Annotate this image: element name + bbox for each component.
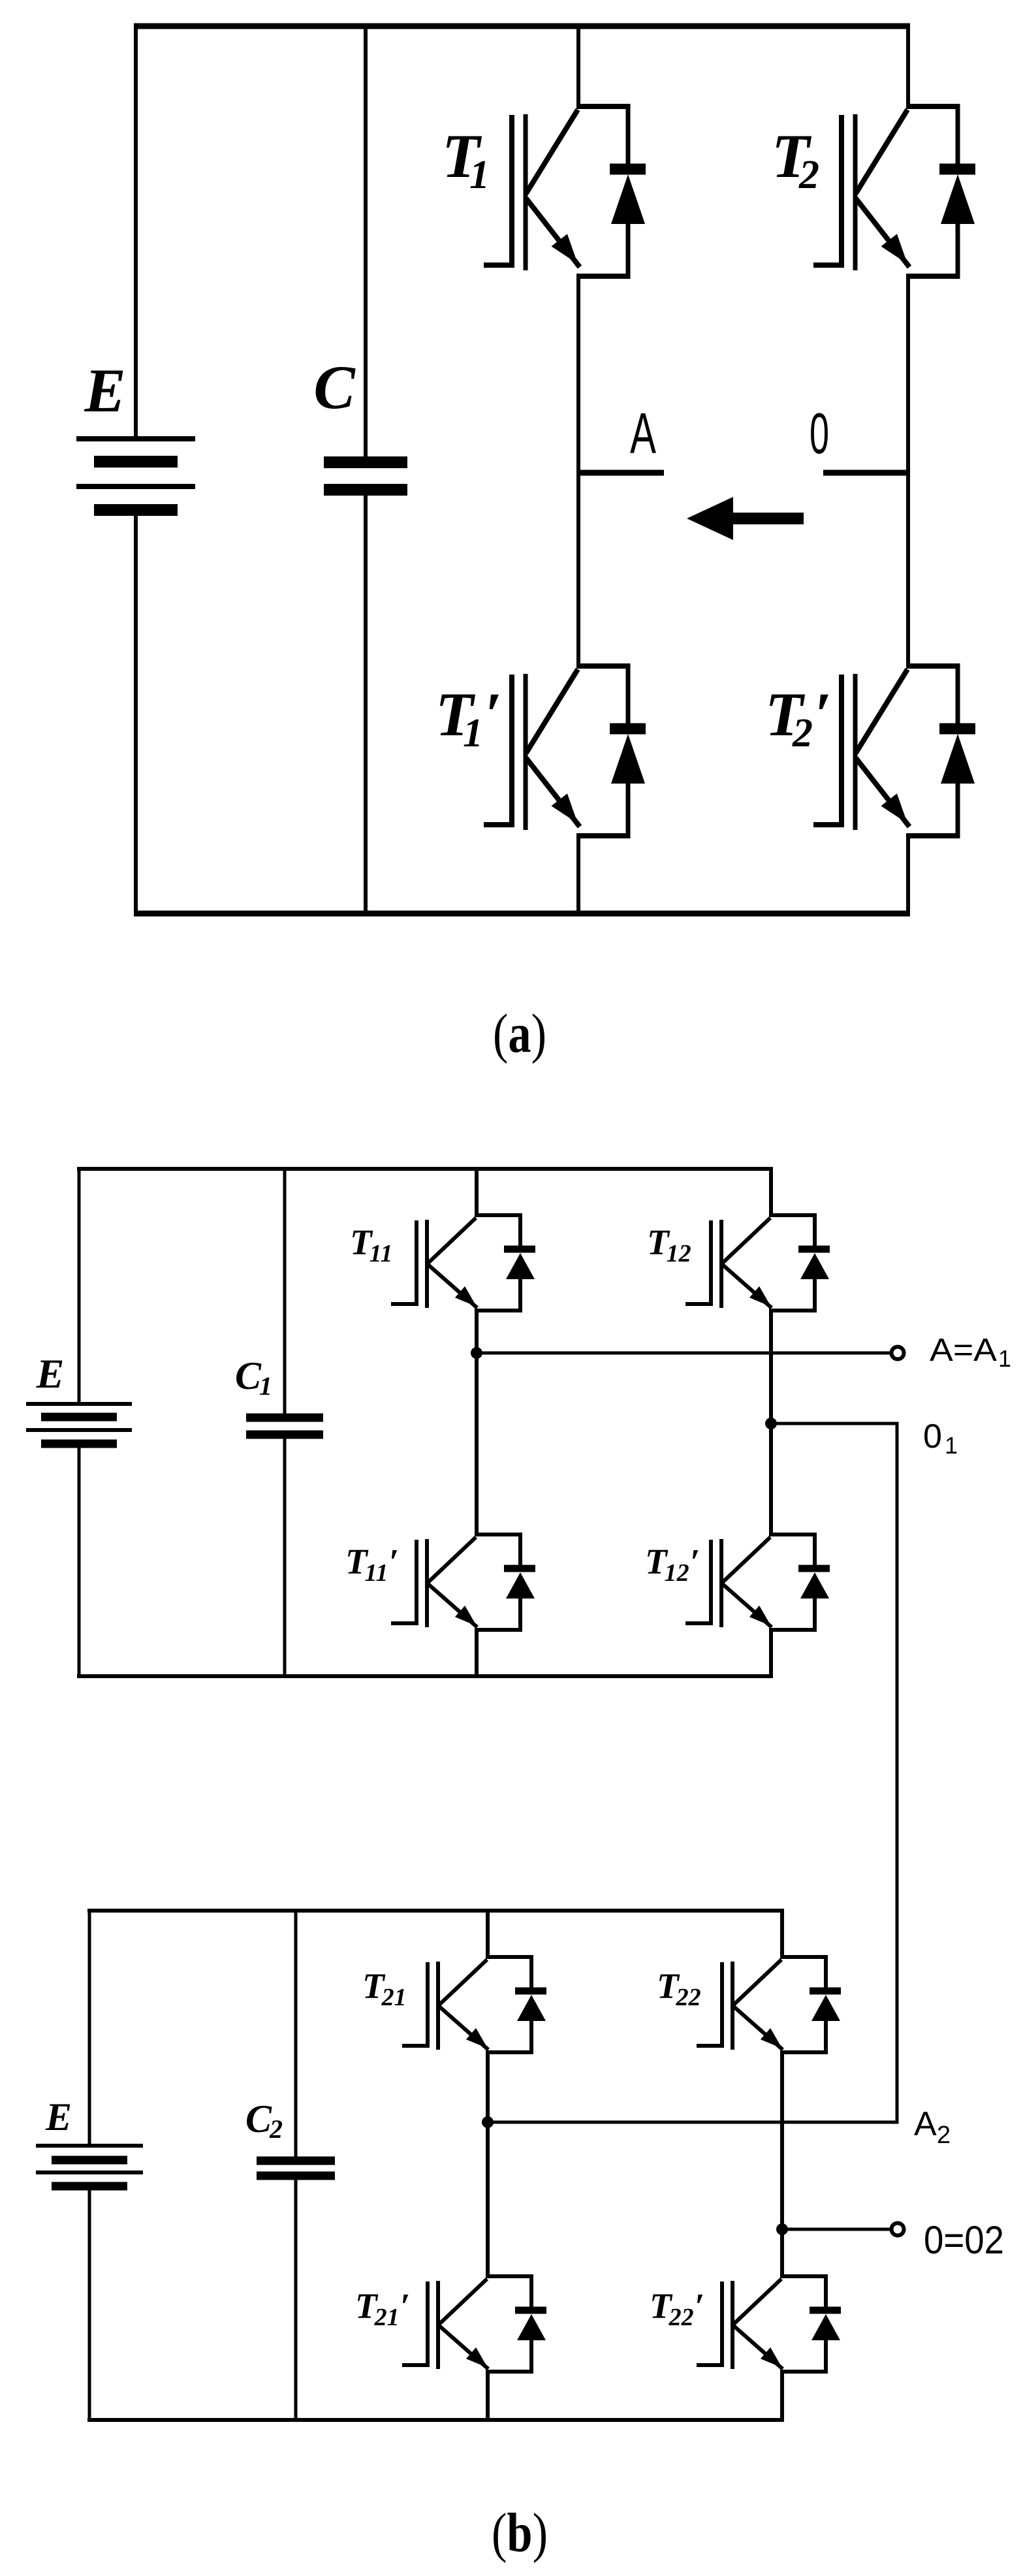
T21 gate bar and gate lead (402, 1962, 428, 2046)
svg-text:C: C (313, 353, 356, 422)
battery E (upper) plates (26, 1404, 132, 1444)
D2 anode triangle (941, 174, 975, 224)
D2 cathode bar (939, 164, 975, 175)
wire: node 01 horizontal run to the right (771, 1422, 899, 1425)
T12 emitter diagonal (723, 1265, 772, 1308)
T12p emitter arrowhead (749, 1606, 771, 1626)
svg-text:T1′: T1′ (435, 680, 502, 755)
svg-text:T22: T22 (657, 1966, 701, 2011)
svg-text:(a): (a) (493, 1003, 546, 1064)
wire: capacitor C2 rail lower segment (294, 2176, 298, 2422)
T1 emitter arrowhead (552, 234, 578, 264)
T12p emitter diagonal (723, 1584, 772, 1627)
D11 anode triangle (506, 1253, 535, 1279)
svg-text:T1: T1 (442, 121, 490, 197)
E (upper) plate 4 (short thick) (41, 1440, 117, 1448)
T1p collector top jog wire (576, 663, 628, 669)
transistor T22p (IGBT) (697, 2274, 841, 2374)
D21p anode lead (529, 2339, 533, 2374)
T12 emitter arrowhead (749, 1286, 771, 1307)
freewheeling diode D12p of T12p (798, 1533, 830, 1632)
D12 cathode bar (798, 1246, 830, 1253)
node A2 junction dot (lower bridge leg 1) (482, 2116, 494, 2128)
T2 emitter arrowhead (881, 234, 908, 264)
svg-text:E: E (36, 1350, 65, 1397)
terminal A=A1 open circle (892, 1347, 904, 1360)
svg-text:1: 1 (998, 1345, 1011, 1372)
transistor T22 (IGBT) (697, 1955, 841, 2054)
D12 cathode lead (813, 1213, 817, 1247)
svg-text:T2′: T2′ (765, 680, 832, 755)
T11 emitter arrowhead (455, 1286, 477, 1307)
D1p anode lead (626, 782, 631, 838)
D11 cathode lead (518, 1213, 522, 1247)
D11 cathode bar (504, 1246, 535, 1253)
wire: capacitor C rail lower segment (364, 495, 368, 916)
svg-text:A: A (630, 401, 656, 466)
wire: left rail lower segment (battery E branch, lower bridge) (88, 2186, 91, 2422)
D21p cathode bar (515, 2307, 546, 2314)
D22p anode triangle (811, 2314, 840, 2340)
T22 collector top jog wire (780, 1955, 826, 1959)
node 01 junction dot (upper bridge leg 2) (765, 1418, 777, 1429)
wire: leg 2 rail from top bus to T22 (780, 1909, 784, 1958)
T12p emitter bottom jog wire (769, 1628, 815, 1632)
freewheeling diode D21 of T21 (515, 1955, 546, 2054)
D2p anode lead (956, 782, 960, 838)
T22p collector top jog wire (780, 2274, 826, 2278)
D11p cathode lead (518, 1533, 522, 1566)
wire: capacitor C rail upper segment (364, 24, 368, 457)
wire: leg 0 rail from top bus to T2 (906, 24, 910, 108)
T21p gate bar and gate lead (402, 2282, 428, 2365)
T22p collector diagonal (734, 2279, 781, 2324)
T21 emitter arrowhead (466, 2028, 488, 2048)
D12p cathode bar (798, 1565, 830, 1572)
T21p collector top jog wire (486, 2274, 531, 2278)
T1 emitter diagonal (526, 199, 580, 267)
node 0=02 junction dot (lower bridge leg 2) (776, 2223, 788, 2235)
T21p emitter bottom jog wire (486, 2370, 531, 2374)
svg-text:C2: C2 (245, 2097, 283, 2144)
T2 emitter bottom jog wire (906, 274, 958, 279)
T12p collector top jog wire (769, 1533, 815, 1536)
T11 gate bar and gate lead (391, 1220, 417, 1304)
capacitor C plates (324, 462, 407, 490)
transistor T11 (IGBT) (391, 1213, 535, 1312)
D21p cathode lead (529, 2274, 533, 2308)
svg-text:T22′: T22′ (650, 2286, 704, 2331)
D12p cathode lead (813, 1533, 817, 1566)
D12 anode lead (813, 1278, 817, 1312)
E (upper) plate 2 (short thick) (41, 1413, 117, 1422)
wire: leg A rail between T1 and T1' (phase node A) (576, 275, 580, 668)
T22 collector diagonal (734, 1960, 781, 2005)
T11 emitter bottom jog wire (475, 1309, 520, 1312)
T2p emitter bottom jog wire (906, 833, 958, 838)
T11p collector diagonal (428, 1537, 476, 1582)
T1 collector top jog wire (576, 104, 628, 109)
D11p cathode bar (504, 1565, 535, 1572)
T12p body bar (719, 1539, 723, 1627)
wire: leg 2 rail from T12' to bottom bus (769, 1628, 773, 1678)
E (lower) plate 4 (short thick) (52, 2182, 127, 2191)
D22 cathode bar (810, 1988, 841, 1995)
T21 emitter bottom jog wire (486, 2050, 531, 2054)
svg-text:T12: T12 (647, 1222, 691, 1267)
T21 collector diagonal (439, 1960, 487, 2005)
T2p emitter arrowhead (881, 793, 908, 823)
D1 cathode lead (626, 104, 631, 166)
D1p cathode lead (626, 663, 631, 725)
T2p collector diagonal (856, 669, 907, 753)
D21 cathode bar (515, 1988, 546, 1995)
svg-text:C1: C1 (235, 1354, 272, 1401)
C1 bottom plate (246, 1431, 323, 1439)
T2 emitter diagonal (856, 199, 909, 267)
T1 body bar (524, 114, 528, 270)
wire: output stub of node A (578, 470, 664, 476)
wire: capacitor C2 rail upper segment (294, 1909, 298, 2161)
svg-text:T21′: T21′ (355, 2286, 410, 2331)
transistor T12 (IGBT) (685, 1213, 830, 1312)
D11p anode triangle (506, 1572, 535, 1598)
C bottom plate (324, 484, 407, 496)
T11p gate bar and gate lead (391, 1540, 417, 1623)
D21 cathode lead (529, 1955, 533, 1989)
transistor T21 (IGBT) (402, 1955, 546, 2054)
T22 emitter bottom jog wire (780, 2050, 826, 2054)
wire: node 0=02 to output terminal (782, 2228, 890, 2231)
T1 collector diagonal (526, 110, 578, 193)
wire: leg A rail from top bus to T1 (576, 24, 580, 108)
wire: leg 2 rail from T22' to bottom bus (780, 2370, 784, 2422)
wire: output stub of node 0 (823, 470, 910, 476)
transistor T12p (IGBT) (685, 1533, 830, 1632)
wire: long vertical from node 01 down to node A2 of lower bridge (896, 1423, 899, 2124)
transistor T21p (IGBT) (402, 2274, 546, 2374)
battery E plates (76, 439, 195, 510)
svg-text:0: 0 (923, 1418, 942, 1455)
T22 emitter arrowhead (761, 2028, 782, 2048)
T1 emitter bottom jog wire (576, 274, 628, 279)
wire: leg 0 rail between T2 and T2' (node 0) (906, 275, 910, 668)
wire: leg 1 rail from T11' to bottom bus (475, 1628, 479, 1678)
T22 gate bar and gate lead (697, 1962, 722, 2046)
freewheeling diode D2 of T2 (939, 104, 975, 279)
D12p anode triangle (800, 1572, 829, 1598)
T11 collector diagonal (428, 1218, 476, 1263)
T11p emitter diagonal (428, 1584, 477, 1627)
T1p emitter diagonal (526, 758, 580, 827)
svg-text:E: E (84, 356, 125, 425)
E (upper) plate 1 (long) (26, 1402, 132, 1406)
T22p emitter arrowhead (761, 2347, 782, 2368)
D11p anode lead (518, 1597, 522, 1632)
wire: top DC bus of circuit (a) (134, 24, 910, 29)
D21p anode triangle (517, 2314, 546, 2340)
D2 anode lead (956, 223, 960, 279)
T2 collector top jog wire (906, 104, 958, 109)
wire: leg 0 rail from T2' to bottom bus (906, 834, 910, 916)
freewheeling diode D1 of T1 (610, 104, 646, 279)
freewheeling diode D11 of T11 (504, 1213, 535, 1312)
T1p body bar (524, 674, 528, 830)
T12 gate bar and gate lead (685, 1220, 711, 1304)
D22p cathode bar (810, 2307, 841, 2314)
T11p emitter bottom jog wire (475, 1628, 520, 1632)
wire: leg 1 rail between T11 and T11' (node A) (475, 1309, 479, 1536)
T2p body bar (853, 674, 858, 830)
wire: node A2 horizontal run to the right (joins vertical from 01) (488, 2121, 899, 2124)
battery E (lower) plates (36, 2146, 143, 2186)
wire: leg A rail from T1' to bottom bus (576, 834, 580, 916)
T2 collector diagonal (856, 110, 907, 193)
E plate 1 (long) (76, 436, 195, 441)
D21 anode triangle (517, 1995, 546, 2021)
svg-text:T2: T2 (772, 121, 819, 197)
terminal 0=02 open circle (892, 2223, 904, 2236)
freewheeling diode D2p of T2p (939, 663, 975, 838)
svg-text:T21: T21 (362, 1966, 407, 2011)
D22p cathode lead (824, 2274, 828, 2308)
D1p cathode bar (610, 724, 646, 735)
T2p collector top jog wire (906, 663, 958, 669)
D2p cathode bar (939, 724, 975, 735)
T22p emitter diagonal (734, 2326, 783, 2369)
T2 gate bar and gate lead (813, 115, 842, 265)
E (lower) plate 2 (short thick) (52, 2156, 127, 2165)
capacitor C1 plates (246, 1418, 323, 1435)
T22p body bar (731, 2281, 734, 2369)
svg-text:A: A (914, 2105, 937, 2143)
D1 anode triangle (611, 174, 645, 224)
D11 anode lead (518, 1278, 522, 1312)
T1p emitter arrowhead (552, 793, 578, 823)
wire: capacitor C1 rail upper segment (283, 1167, 287, 1418)
T21 collector top jog wire (486, 1955, 531, 1959)
wire: leg 2 rail between T22 and T22' (node 0=02) (780, 2051, 784, 2278)
T11p collector top jog wire (475, 1533, 520, 1536)
freewheeling diode D11p of T11p (504, 1533, 535, 1632)
transistor T11p (IGBT) (391, 1533, 535, 1632)
D22 anode lead (824, 2020, 828, 2054)
freewheeling diode D12 of T12 (798, 1213, 830, 1312)
freewheeling diode D22p of T22p (810, 2274, 841, 2374)
current direction arrow (pointing left) (687, 497, 804, 540)
D1 cathode bar (610, 164, 646, 175)
T21p collector diagonal (439, 2279, 487, 2324)
D22 cathode lead (824, 1955, 828, 1989)
T21 emitter diagonal (439, 2007, 488, 2050)
wire: left rail upper segment (battery E branch, lower bridge) (88, 1909, 91, 2146)
C2 top plate (257, 2157, 335, 2165)
T12 body bar (719, 1220, 723, 1308)
T12p gate bar and gate lead (685, 1540, 711, 1623)
wire: left rail lower segment (battery E branch) (134, 512, 138, 916)
T12 collector top jog wire (769, 1213, 815, 1217)
wire: leg 1 rail from top bus to T21 (486, 1909, 490, 1958)
svg-text:2: 2 (937, 2122, 951, 2149)
E plate 4 (short thick) (94, 504, 178, 516)
T1 gate bar and gate lead (484, 115, 512, 265)
T11 emitter diagonal (428, 1265, 477, 1308)
arrow head (687, 497, 733, 540)
T21 body bar (436, 1962, 440, 2050)
D1 anode lead (626, 223, 631, 279)
svg-text:(b): (b) (492, 2502, 548, 2564)
T21p emitter diagonal (439, 2326, 488, 2369)
T1p collector diagonal (526, 669, 578, 753)
T22 emitter diagonal (734, 2007, 783, 2050)
D22 anode triangle (811, 1995, 840, 2021)
wire: leg 2 rail from top bus to T12 (769, 1167, 773, 1216)
wire: left rail lower segment (battery E branch, upper bridge) (78, 1444, 81, 1678)
freewheeling diode D1p of T1p (610, 663, 646, 838)
node A junction dot (upper bridge leg 1) (471, 1347, 482, 1359)
T1p gate bar and gate lead (484, 675, 512, 825)
svg-text:E: E (45, 2095, 72, 2139)
T11 collector top jog wire (475, 1213, 520, 1217)
T22p gate bar and gate lead (697, 2282, 722, 2365)
C top plate (324, 456, 407, 468)
svg-text:T11: T11 (350, 1222, 393, 1267)
D12p anode lead (813, 1597, 817, 1632)
D2p anode triangle (941, 734, 975, 784)
E plate 3 (long) (76, 484, 195, 489)
wire: leg 1 rail between T21 and T21' (node A2) (486, 2051, 490, 2278)
svg-text:0: 0 (810, 401, 829, 466)
wire: left rail upper segment (battery E branch, upper bridge) (78, 1167, 81, 1404)
E (lower) plate 3 (long) (36, 2171, 143, 2174)
wire: top DC bus of lower bridge (87, 1909, 784, 1913)
T21p body bar (436, 2281, 440, 2369)
T12p collector diagonal (723, 1537, 770, 1582)
D22p anode lead (824, 2339, 828, 2374)
svg-text:1: 1 (945, 1432, 958, 1459)
T11p emitter arrowhead (455, 1606, 477, 1626)
wire: left rail upper segment (battery E branch) (134, 24, 138, 437)
transistor T1p (IGBT) (484, 663, 646, 838)
svg-text:A=A: A=A (930, 1333, 997, 1368)
transistor T2 (IGBT) (813, 104, 975, 279)
freewheeling diode D22 of T22 (810, 1955, 841, 2054)
T21p emitter arrowhead (466, 2347, 488, 2368)
C1 top plate (246, 1414, 323, 1422)
T22 body bar (731, 1962, 734, 2050)
wire: leg 1 rail from top bus to T11 (475, 1167, 479, 1216)
D2p cathode lead (956, 663, 960, 725)
T2p gate bar and gate lead (813, 675, 842, 825)
svg-text:0=02: 0=02 (924, 2218, 1004, 2262)
T1p emitter bottom jog wire (576, 833, 628, 838)
T12 emitter bottom jog wire (769, 1309, 815, 1312)
E (upper) plate 3 (long) (26, 1428, 132, 1432)
E plate 2 (short thick) (94, 456, 178, 468)
T2 body bar (853, 114, 858, 270)
D21 anode lead (529, 2020, 533, 2054)
wire: node A to output terminal A=A1 (477, 1352, 891, 1355)
D12 anode triangle (800, 1253, 829, 1279)
T22p emitter bottom jog wire (780, 2370, 826, 2374)
wire: leg 1 rail from T21' to bottom bus (486, 2370, 490, 2422)
wire: bottom DC bus of lower bridge (87, 2418, 784, 2422)
D1p anode triangle (611, 734, 645, 784)
transistor T1 (IGBT) (484, 104, 646, 279)
D2 cathode lead (956, 104, 960, 166)
T2p emitter diagonal (856, 758, 909, 827)
T12 collector diagonal (723, 1218, 770, 1263)
E (lower) plate 1 (long) (36, 2144, 143, 2148)
wire: top DC bus of upper bridge (77, 1167, 773, 1171)
arrow shaft (730, 513, 804, 524)
transistor T2p (IGBT) (813, 663, 975, 838)
svg-text:T11′: T11′ (345, 1542, 399, 1587)
capacitor C2 plates (257, 2161, 335, 2176)
wire: bottom DC bus of circuit (a) (134, 911, 910, 917)
wire: bottom DC bus of upper bridge (77, 1674, 773, 1678)
wire: capacitor C1 rail lower segment (283, 1435, 287, 1678)
svg-text:T12′: T12′ (645, 1542, 700, 1587)
T11p body bar (425, 1539, 429, 1627)
freewheeling diode D21p of T21p (515, 2274, 546, 2374)
wire: leg 2 rail between T12 and T12' (node 01) (769, 1309, 773, 1536)
C2 bottom plate (257, 2172, 335, 2180)
T11 body bar (425, 1220, 429, 1308)
